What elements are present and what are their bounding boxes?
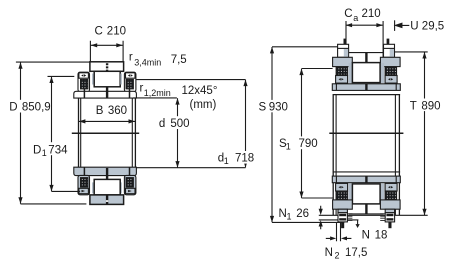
rv top left cage [336, 67, 348, 75]
svg-text:7,5: 7,5 [171, 54, 187, 66]
Ca extension left [345, 21, 347, 44]
outer ring bottom bar [90, 195, 124, 205]
outer ring center flange [94, 71, 120, 87]
svg-text:B: B [96, 105, 104, 117]
bottom center flange [94, 179, 120, 195]
N2 arrows [330, 236, 347, 240]
left roller mark [81, 74, 86, 76]
right view axis line [329, 132, 403, 134]
N1 arrows [319, 209, 323, 227]
svg-text:D: D [33, 145, 41, 157]
svg-text:2: 2 [335, 250, 340, 260]
T dim top extension [395, 51, 428, 53]
bottom right cage [126, 178, 133, 188]
outer ring top bar [90, 62, 124, 72]
S1 dim bottom extension [302, 197, 333, 199]
top left stud [338, 44, 349, 57]
right roller mark [128, 74, 133, 76]
bottom left rail strip [92, 182, 94, 193]
S dim bottom extension [272, 221, 344, 223]
rv top right roller [385, 76, 397, 84]
rv bottom left roller mark [339, 186, 344, 188]
left cage [81, 79, 88, 89]
d1 dim line [245, 80, 247, 168]
axis line [72, 132, 139, 134]
bore wall right outer [134, 98, 136, 167]
top right stud tick [387, 39, 390, 45]
rv bottom rails [349, 183, 353, 199]
S1 dim top extension [302, 68, 333, 70]
B dim line [79, 120, 135, 122]
svg-text:1: 1 [224, 156, 229, 166]
svg-text:18: 18 [375, 229, 388, 241]
T dim arrows [422, 52, 426, 215]
C dim extension lines [90, 41, 123, 62]
bottom right assembly outline [124, 175, 135, 194]
sleeve top edge [333, 94, 401, 96]
bottom left cage [81, 178, 88, 188]
D1 bottom extension [52, 190, 81, 192]
bottom right stud tick [388, 222, 391, 228]
bottom left assembly outline [78, 175, 90, 194]
bottom right stud washer lines [380, 214, 385, 221]
bottom left stud gray [338, 209, 347, 213]
right-view center flange [352, 63, 380, 83]
bore wall right inner [131, 98, 133, 167]
U arrow [395, 23, 409, 27]
rv bottom left bar [333, 200, 353, 209]
left cage rail strip [92, 74, 94, 85]
d1 text backing [216, 151, 253, 164]
bore wall left inner [80, 98, 82, 167]
svg-text:930: 930 [269, 102, 288, 114]
rv bottom right roller mark [388, 186, 393, 188]
d1/d shared bottom extension [136, 167, 245, 169]
tick above bottom flange [106, 168, 108, 179]
left roller row tick [83, 89, 85, 98]
bottom left stud stripes [339, 214, 346, 216]
svg-text:17,5: 17,5 [345, 247, 367, 259]
bore wall left outer [78, 98, 80, 167]
rv top band chamfers [336, 84, 396, 91]
center top line [349, 52, 384, 54]
svg-text:790: 790 [299, 138, 318, 150]
svg-text:210: 210 [107, 25, 126, 37]
C dim line [91, 44, 123, 46]
S1 text backing [278, 136, 318, 149]
bottom right stud gray [385, 209, 394, 213]
bottom right rail strip [120, 182, 122, 193]
N1 lower ext + N leader line [319, 219, 359, 221]
D1 dim line [51, 77, 53, 192]
bottom left roller mark [82, 190, 86, 192]
S1 dim arrows [299, 69, 303, 198]
band center tick [106, 92, 108, 98]
C dim arrows [91, 43, 123, 47]
rv bottom band [332, 176, 400, 183]
left roller assembly outline [78, 72, 90, 91]
Ca dim arrows [346, 23, 383, 27]
inner ring top band [74, 91, 137, 98]
sleeve right wall inner [394, 95, 396, 216]
bottom left roller [79, 188, 89, 193]
svg-text:r: r [129, 52, 133, 64]
right roller [126, 73, 136, 78]
svg-text:26: 26 [296, 208, 309, 220]
rv top right roller mark [388, 78, 393, 80]
D dim line [20, 62, 22, 203]
rv bottom band chamfers [336, 176, 396, 183]
sleeve left wall inner [335, 95, 337, 216]
svg-text:S: S [259, 102, 267, 114]
r34min leader line [136, 79, 246, 81]
svg-text:3,4min: 3,4min [134, 57, 161, 67]
svg-text:718: 718 [235, 153, 254, 165]
svg-text:d: d [159, 118, 165, 130]
bottom bar tick white notch [106, 200, 108, 202]
d text backing [157, 116, 190, 129]
bottom right roller mark [128, 190, 132, 192]
bottom right roller [126, 188, 136, 193]
right cage rail strip [120, 74, 122, 85]
svg-text:29,5: 29,5 [422, 20, 444, 32]
svg-text:1: 1 [287, 212, 292, 222]
svg-text:890: 890 [421, 100, 440, 112]
svg-text:N: N [362, 229, 370, 241]
sleeve right wall outer [398, 95, 400, 216]
d dim line [177, 98, 179, 167]
B dim arrows [79, 119, 135, 123]
bottom right stud white [385, 213, 394, 222]
rv top left roller [336, 76, 348, 84]
D1 text backing [32, 142, 73, 155]
D1 dim arrows [49, 77, 53, 192]
S text backing [257, 100, 292, 112]
T text backing [408, 99, 441, 112]
N2 extension lines [337, 223, 341, 242]
rv bottom left roller [336, 183, 348, 191]
rv bottom left cage [336, 192, 348, 200]
sleeve bottom edge + N1 upper ext + T bottom ext [319, 214, 428, 216]
rv tick below flange [365, 204, 367, 214]
inner ring bottom band [74, 167, 137, 175]
svg-text:1,2min: 1,2min [144, 88, 171, 98]
svg-text:C: C [95, 25, 103, 37]
svg-text:12x45°: 12x45° [182, 85, 218, 97]
D1 top extension [48, 75, 75, 77]
S1 dim line [301, 69, 303, 198]
r12min leader line [133, 97, 177, 99]
bottom right roller row tick [129, 167, 131, 178]
bottom left stud tick [341, 222, 344, 228]
rv bottom right roller [385, 183, 397, 191]
rv top band tick [365, 84, 367, 90]
svg-text:1: 1 [42, 148, 47, 158]
top left stud tick [344, 39, 347, 45]
svg-text:1: 1 [286, 141, 291, 151]
bottom left stud white [338, 213, 347, 222]
bottom left roller row tick [83, 167, 85, 178]
top left bar [333, 57, 353, 66]
T dim line [424, 52, 426, 215]
D text backing [8, 100, 51, 113]
svg-text:T: T [410, 100, 417, 112]
left roller [79, 73, 89, 78]
top right stud [384, 44, 395, 57]
Ca dim line [346, 24, 383, 26]
svg-text:850,9: 850,9 [22, 101, 51, 113]
rv top right cage [385, 67, 397, 75]
bottom bar center tick [106, 195, 108, 204]
svg-text:(mm): (mm) [190, 99, 217, 111]
right cage [126, 79, 133, 89]
svg-text:D: D [9, 101, 17, 113]
U tick [394, 20, 396, 31]
svg-text:500: 500 [170, 118, 189, 130]
D dim arrows [18, 62, 22, 204]
right roller assembly outline [124, 72, 135, 91]
svg-text:360: 360 [108, 105, 127, 117]
D dim top extension [16, 61, 90, 63]
d1 dim arrows [243, 80, 247, 168]
rv top band [332, 84, 400, 91]
svg-text:210: 210 [362, 8, 381, 20]
d dim arrows [175, 98, 179, 168]
svg-text:U: U [410, 20, 418, 32]
rv bottom right cage [385, 192, 397, 200]
svg-text:734: 734 [48, 145, 68, 157]
top bar center dashed tick [106, 63, 108, 71]
rv bottom center line [349, 213, 384, 215]
N leader arrow [357, 220, 359, 224]
tick below flange [106, 87, 108, 98]
bottom right stud stripes [386, 214, 393, 216]
right-view cage rails [349, 63, 353, 83]
rv bottom upper line [333, 171, 401, 173]
bottom left stud washer lines [347, 214, 352, 221]
svg-text:N: N [325, 247, 333, 259]
S dim top extension [272, 46, 338, 48]
sleeve left wall outer [332, 95, 334, 216]
svg-text:a: a [353, 13, 358, 23]
tick above right-view flange [365, 53, 367, 63]
rv top left roller mark [339, 78, 344, 80]
rv bottom center flange [352, 184, 380, 204]
right roller row tick [129, 89, 131, 98]
D dim bottom extension [21, 203, 87, 205]
rv bottom right bar [380, 200, 400, 209]
rv bottom band tick [365, 176, 367, 182]
top right bar [380, 57, 400, 66]
S dim line [271, 47, 273, 222]
Ca extension right [382, 21, 384, 57]
svg-text:C: C [344, 8, 352, 20]
S dim arrows [270, 47, 274, 223]
